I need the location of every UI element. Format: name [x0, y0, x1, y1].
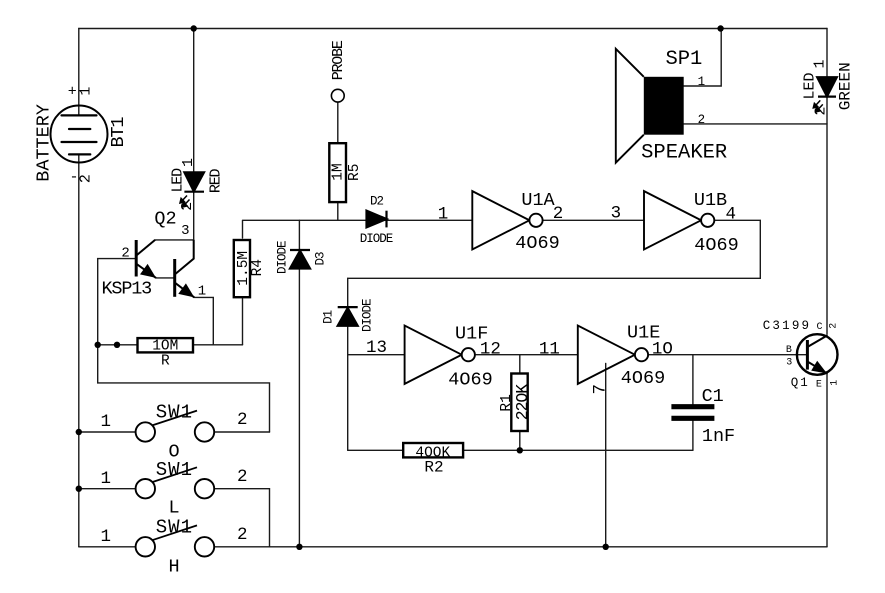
svg-text:2: 2	[812, 106, 829, 115]
svg-text:SW1: SW1	[156, 459, 193, 481]
svg-text:1M: 1M	[330, 163, 346, 180]
svg-text:12: 12	[480, 339, 501, 359]
svg-text:B: B	[786, 345, 792, 356]
svg-text:BT1: BT1	[108, 117, 129, 148]
svg-text:1nF: 1nF	[702, 426, 735, 447]
svg-text:R: R	[161, 354, 170, 370]
svg-text:SW1: SW1	[156, 517, 193, 539]
svg-text:DIODE: DIODE	[360, 232, 393, 246]
svg-text:GREEN: GREEN	[836, 62, 854, 110]
svg-text:C: C	[816, 322, 822, 333]
svg-text:11: 11	[539, 339, 560, 359]
svg-text:2: 2	[698, 113, 706, 127]
svg-text:LED: LED	[170, 168, 187, 193]
svg-text:PROBE: PROBE	[330, 40, 347, 80]
svg-text:4: 4	[726, 205, 737, 225]
svg-text:SP1: SP1	[665, 48, 702, 71]
svg-text:H: H	[168, 557, 179, 578]
svg-text:D1: D1	[322, 310, 336, 324]
svg-text:1: 1	[698, 75, 706, 89]
svg-text:BATTERY: BATTERY	[34, 104, 55, 182]
svg-text:C1: C1	[702, 386, 724, 407]
svg-text:1OM: 1OM	[152, 339, 178, 355]
svg-text:3: 3	[181, 223, 189, 239]
svg-text:SW1: SW1	[156, 402, 193, 424]
svg-text:LED: LED	[802, 72, 819, 99]
svg-text:2: 2	[121, 245, 129, 261]
svg-text:4O69: 4O69	[621, 368, 665, 389]
svg-text:2: 2	[237, 410, 248, 430]
svg-text:KSP13: KSP13	[102, 279, 152, 300]
svg-text:4O69: 4O69	[515, 233, 559, 254]
svg-text:1: 1	[101, 469, 112, 489]
svg-text:2: 2	[237, 525, 248, 545]
svg-text:2: 2	[237, 467, 248, 487]
svg-text:3: 3	[611, 204, 622, 224]
svg-text:1: 1	[101, 412, 112, 432]
svg-text:DIODE: DIODE	[276, 241, 290, 274]
svg-text:C3199: C3199	[763, 319, 812, 333]
svg-text:1: 1	[812, 59, 829, 68]
svg-text:1: 1	[829, 380, 840, 386]
svg-text:7: 7	[590, 384, 610, 395]
svg-text:Q2: Q2	[154, 208, 176, 229]
svg-text:4O69: 4O69	[694, 235, 738, 256]
svg-text:SPEAKER: SPEAKER	[641, 142, 727, 165]
svg-text:DIODE: DIODE	[361, 299, 375, 332]
svg-text:1: 1	[101, 527, 112, 547]
svg-text:R2: R2	[424, 459, 443, 477]
svg-text:2: 2	[829, 323, 840, 329]
svg-text:E: E	[816, 380, 822, 391]
svg-text:D3: D3	[313, 252, 327, 266]
svg-text:U1B: U1B	[694, 190, 727, 211]
svg-text:1O: 1O	[652, 339, 673, 359]
svg-text:Q1: Q1	[791, 376, 810, 390]
svg-text:22OK: 22OK	[513, 384, 532, 420]
svg-text:RED: RED	[207, 169, 224, 194]
svg-text:1: 1	[180, 158, 197, 167]
svg-text:3: 3	[786, 358, 792, 369]
svg-text:1: 1	[438, 204, 449, 224]
svg-text:L: L	[168, 498, 179, 519]
svg-text:1: 1	[198, 284, 206, 300]
svg-text:D2: D2	[370, 195, 384, 209]
svg-text:2: 2	[179, 202, 196, 211]
svg-text:+: +	[68, 84, 77, 101]
svg-text:R4: R4	[250, 259, 266, 276]
svg-text:13: 13	[366, 338, 387, 358]
svg-text:2: 2	[553, 204, 564, 224]
svg-text:U1A: U1A	[521, 190, 555, 211]
svg-text:1: 1	[78, 87, 95, 96]
svg-text:R5: R5	[347, 164, 363, 181]
svg-text:2: 2	[77, 174, 94, 183]
svg-text:4O69: 4O69	[448, 370, 492, 391]
